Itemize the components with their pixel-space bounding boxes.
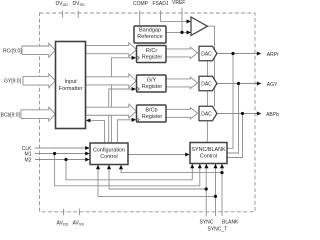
wire BLANK pin bbox=[221, 167, 223, 216]
wire config control to SYNC/BLANK left input bbox=[128, 154, 186, 156]
wire COMP to bandgap bbox=[139, 11, 141, 27]
svg-text:DVDD: DVDD bbox=[56, 1, 69, 7]
svg-text:GY[9:0]: GY[9:0] bbox=[4, 79, 22, 85]
arrowhead BLANK net into config pin3 bbox=[119, 165, 123, 170]
svg-text:Register: Register bbox=[142, 114, 163, 120]
wire config bottom pin2 to SYNC net bbox=[109, 165, 206, 190]
wire DAC3 output feedback to SYNC/BLANK control bbox=[227, 114, 243, 158]
pin AVSS tick bbox=[78, 209, 80, 216]
wire config pin to B/Cb register clock bbox=[117, 120, 132, 143]
svg-text:DAC: DAC bbox=[201, 82, 212, 88]
svg-text:DAC: DAC bbox=[201, 52, 212, 58]
input bus arrow BCb[9:0] bbox=[21, 107, 55, 121]
svg-text:Control: Control bbox=[100, 154, 117, 160]
arrowhead M2 into config bbox=[85, 157, 90, 161]
bus arrow formatter to B/Cb register bbox=[86, 104, 137, 118]
svg-text:Control: Control bbox=[200, 153, 217, 159]
op-amp U2 (reference buffer) bbox=[191, 17, 208, 36]
wire M2 branch to SYNC/BLANK pin 1 bbox=[66, 160, 192, 180]
node M2 junction dot bbox=[64, 158, 67, 161]
input bus arrow GY[9:0] bbox=[23, 74, 55, 88]
arrowhead BLANK net into SYNC/BLANK pin5 bbox=[220, 164, 224, 169]
svg-text:Register: Register bbox=[142, 54, 163, 60]
svg-text:R/Cr: R/Cr bbox=[146, 48, 157, 54]
wire config bottom pin1 to SYNC_T net bbox=[98, 165, 216, 197]
arrowhead M1 net into SYNC/BLANK pin2 bbox=[198, 164, 202, 169]
wire DAC2 output feedback to SYNC/BLANK control bbox=[227, 84, 239, 154]
bus arrow R/Cr register to DAC1 bbox=[166, 47, 198, 58]
wire opamp U2 output to DAC reference rail bbox=[208, 26, 215, 106]
arrowhead config into SYNC/BLANK bbox=[185, 152, 190, 156]
svg-text:DVSS: DVSS bbox=[73, 1, 86, 7]
wire config pin to G/Y register clock bbox=[109, 89, 133, 143]
svg-text:B/Cb: B/Cb bbox=[145, 107, 157, 113]
wire M1 input bbox=[35, 153, 86, 155]
svg-text:Register: Register bbox=[142, 84, 163, 90]
arrowhead M2 net into SYNC/BLANK pin1 bbox=[190, 164, 194, 169]
wire config pin to formatter control bbox=[90, 120, 105, 143]
wire DAC2 output to AGY bbox=[217, 83, 257, 85]
svg-text:COMP: COMP bbox=[133, 1, 149, 7]
wire SYNC pin bbox=[205, 167, 207, 216]
svg-text:BLANK: BLANK bbox=[222, 220, 239, 226]
R/Cr register U4 bbox=[137, 46, 167, 63]
pin AVDD tick bbox=[63, 209, 65, 216]
wire CLK input bbox=[35, 147, 86, 149]
arrowhead clock into G/Y register bbox=[132, 87, 137, 91]
wire config pin to R/Cr register clock bbox=[111, 58, 132, 143]
node SYNC_T junction bbox=[214, 195, 217, 198]
node DAC1 output junction bbox=[231, 52, 234, 55]
svg-text:VREF: VREF bbox=[172, 0, 185, 6]
svg-text:ABPb: ABPb bbox=[266, 112, 279, 118]
svg-text:RCr[9:0]: RCr[9:0] bbox=[3, 49, 22, 55]
pin DVSS tick bbox=[77, 11, 79, 18]
bandgap reference U3 bbox=[134, 26, 166, 43]
SYNC/BLANK control U8 bbox=[190, 143, 227, 164]
svg-text:Formatter: Formatter bbox=[59, 86, 83, 92]
DAC U11 (B channel) bbox=[199, 106, 217, 121]
node BLANK junction bbox=[220, 171, 223, 174]
svg-text:Bandgap: Bandgap bbox=[139, 28, 161, 34]
svg-text:Reference: Reference bbox=[137, 34, 162, 40]
wire M1 branch to SYNC/BLANK pin 2 bbox=[55, 154, 200, 186]
wire M2 input bbox=[35, 159, 86, 161]
svg-text:ARPr: ARPr bbox=[267, 52, 279, 58]
DAC U9 (R channel) bbox=[199, 46, 217, 61]
svg-text:Input: Input bbox=[64, 79, 77, 85]
input formatter U1 bbox=[56, 42, 86, 129]
arrowhead SYNC net into SYNC/BLANK pin3 bbox=[204, 164, 208, 169]
wire DAC1 output to ARPr bbox=[217, 53, 257, 55]
chip boundary (dashed border) bbox=[40, 13, 256, 212]
input bus arrow RCr[9:0] bbox=[22, 43, 55, 57]
pin DVDD tick bbox=[62, 11, 64, 18]
node A junction dot bbox=[180, 31, 183, 34]
svg-text:BCb[9:0]: BCb[9:0] bbox=[1, 113, 21, 119]
bus arrow formatter to R/Cr register bbox=[86, 43, 137, 57]
arrowhead node A into op-amp bbox=[187, 30, 192, 34]
wire SYNC_T pin bbox=[215, 164, 217, 217]
svg-text:SYNC: SYNC bbox=[200, 220, 214, 226]
svg-text:SYNC_T: SYNC_T bbox=[208, 226, 228, 232]
bus arrow G/Y register to DAC2 bbox=[166, 77, 198, 88]
arrowhead SYNC_T net into SYNC/BLANK pin4 bbox=[213, 164, 217, 169]
arrowhead output ABPb bbox=[257, 111, 262, 115]
arrowhead config to formatter bbox=[86, 118, 91, 122]
svg-text:SYNC/BLANK: SYNC/BLANK bbox=[191, 147, 226, 153]
wire bandgap output to opamp U2 bottom input bbox=[166, 31, 187, 33]
arrowhead FSADJ into op-amp bbox=[187, 19, 192, 23]
wire VREF to node A bbox=[181, 8, 183, 33]
svg-text:AVDD: AVDD bbox=[57, 221, 69, 227]
arrowhead CLK into config bbox=[85, 146, 90, 150]
svg-text:M2: M2 bbox=[25, 158, 32, 164]
svg-text:DAC: DAC bbox=[201, 112, 212, 118]
wire DAC3 output to ABPb bbox=[217, 113, 257, 115]
wire FSADJ to opamp U2 top input bbox=[161, 11, 187, 22]
wire DAC1 output feedback to SYNC/BLANK control bbox=[227, 54, 233, 149]
wire sync insertion rail from SYNC/BLANK control up through DACs bbox=[206, 61, 208, 143]
node DAC2 output junction bbox=[237, 82, 240, 85]
svg-text:Configuration: Configuration bbox=[93, 147, 125, 153]
wire config bottom pin3 to BLANK net bbox=[121, 165, 222, 173]
arrowhead SYNC_T net into config pin1 bbox=[96, 165, 100, 170]
node SYNC junction bbox=[205, 187, 208, 190]
node M1 junction dot bbox=[53, 152, 56, 155]
arrowhead clock into R/Cr register bbox=[132, 56, 137, 60]
node DAC3 output junction bbox=[241, 112, 244, 115]
svg-text:AVSS: AVSS bbox=[73, 221, 85, 227]
arrowhead clock into B/Cb register bbox=[132, 118, 137, 122]
svg-text:FSADJ: FSADJ bbox=[153, 1, 169, 7]
svg-text:AGY: AGY bbox=[267, 82, 278, 88]
arrowhead output AGY bbox=[257, 81, 262, 85]
arrowhead output ARPr bbox=[257, 51, 262, 55]
G/Y register U5 bbox=[137, 75, 167, 92]
bus arrow formatter to G/Y register bbox=[86, 74, 137, 88]
configuration control U7 bbox=[90, 143, 128, 165]
B/Cb register U6 bbox=[137, 105, 167, 122]
arrowhead M1 into config bbox=[85, 151, 90, 155]
svg-text:G/Y: G/Y bbox=[147, 77, 157, 83]
DAC U10 (G channel) bbox=[199, 76, 217, 91]
arrowhead SYNC net into config pin2 bbox=[107, 165, 111, 170]
bus arrow B/Cb register to DAC3 bbox=[166, 108, 198, 119]
